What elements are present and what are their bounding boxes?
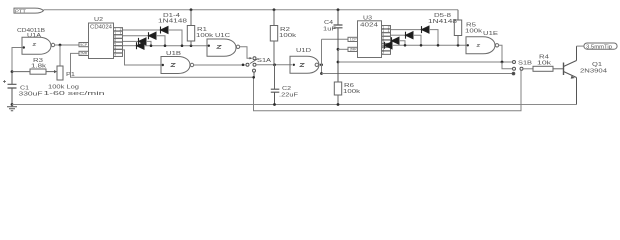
wire U3 CP connection xyxy=(322,38,349,40)
wire S1B common to R4 xyxy=(523,68,533,70)
svg-text:2: 2 xyxy=(382,51,384,55)
svg-text:1CP: 1CP xyxy=(350,38,358,42)
svg-text:1-60 sec/min: 1-60 sec/min xyxy=(44,91,105,97)
wire P1 top xyxy=(59,45,61,66)
svg-text:S1A: S1A xyxy=(257,58,272,64)
node R1 rail junction xyxy=(190,8,193,11)
diode D2 xyxy=(149,32,157,39)
gate U1A xyxy=(22,37,55,54)
node bus dot 2 xyxy=(164,44,167,47)
resistor R4 xyxy=(533,66,564,71)
IC U2 labels xyxy=(90,17,112,31)
diode D8 xyxy=(385,42,393,49)
node B junction xyxy=(337,61,340,64)
op-amp U1A label xyxy=(17,28,46,39)
svg-text:U2: U2 xyxy=(94,17,103,23)
wire U2 pin w1 xyxy=(123,29,161,31)
diodes D1-4 label xyxy=(158,13,187,25)
capacitor C1 xyxy=(3,72,17,105)
svg-text:100k: 100k xyxy=(196,33,214,39)
diode D6 xyxy=(406,32,414,39)
svg-text:U1D: U1D xyxy=(296,48,312,54)
wire U2 pin w3 xyxy=(123,40,139,42)
resistor R4 label xyxy=(537,55,552,67)
wire U3 pin w4 xyxy=(382,44,385,46)
svg-text:C4: C4 xyxy=(324,20,333,26)
wire U3 clock node vertical xyxy=(321,39,323,73)
diode D7 xyxy=(392,37,400,44)
potentiometer P1 label xyxy=(44,72,105,97)
potentiometer P1 xyxy=(57,66,63,80)
wire U2 pin w2 xyxy=(123,35,149,37)
IC U3 labels xyxy=(360,16,378,29)
wire D6 to bus xyxy=(413,35,421,45)
node bus2 dot 1 xyxy=(404,44,407,47)
node S1A MR junction xyxy=(252,76,255,79)
capacitor C2 xyxy=(271,89,280,104)
wire S1B common jog xyxy=(502,62,513,69)
wire D7 to bus xyxy=(399,41,405,46)
node ground junction C2 xyxy=(273,103,276,106)
resistor R2 label xyxy=(279,27,297,39)
wire diode bus 1 xyxy=(144,45,207,47)
resistor R5 xyxy=(454,10,461,46)
node A bottom junction xyxy=(320,72,323,75)
node U1E S1B junction xyxy=(501,61,504,64)
svg-text:100k: 100k xyxy=(465,29,483,35)
resistor R1 label xyxy=(196,27,214,39)
svg-text:U1C: U1C xyxy=(215,33,231,39)
node bus dot R1 xyxy=(190,44,193,47)
node R2 C2 junction xyxy=(273,63,276,66)
resistor R1 xyxy=(187,10,194,46)
svg-text:PTT: PTT xyxy=(15,9,26,14)
IC U3 xyxy=(348,21,391,58)
transistor Q1 label xyxy=(580,62,607,75)
svg-text:1uF: 1uF xyxy=(323,27,336,33)
node C4 rail junction xyxy=(337,8,340,11)
svg-text:2: 2 xyxy=(114,53,116,57)
svg-text:9CP: 9CP xyxy=(80,43,88,47)
svg-text:CD4024: CD4024 xyxy=(90,25,112,31)
wire U1E output xyxy=(499,45,502,62)
diode D4 xyxy=(137,42,145,49)
svg-text:100k: 100k xyxy=(343,89,361,95)
switch S1B xyxy=(513,61,524,71)
svg-text:U1E: U1E xyxy=(483,31,499,37)
node bus2 dot 2 xyxy=(420,44,423,47)
wire diode bus 2 xyxy=(392,44,466,46)
node U3 MR junction xyxy=(337,48,340,51)
svg-text:330uF: 330uF xyxy=(19,92,43,98)
svg-text:C2: C2 xyxy=(282,86,291,92)
svg-text:1N4148: 1N4148 xyxy=(428,19,457,25)
wire node B to S1B xyxy=(338,61,513,63)
wire U3 pin w2 xyxy=(391,34,406,36)
node R2 rail junction xyxy=(273,8,276,11)
gate U1C xyxy=(207,39,240,56)
capacitor C4 xyxy=(334,10,343,82)
wire PTT rail xyxy=(44,9,459,11)
capacitor C4 label xyxy=(323,20,336,33)
svg-text:2MR: 2MR xyxy=(350,48,358,52)
diode D3 xyxy=(139,38,147,45)
node U1D output junction xyxy=(320,63,323,66)
wire U2 pin w4 xyxy=(123,45,137,47)
wire D3 to bus xyxy=(146,41,151,45)
gate U1D xyxy=(290,56,319,73)
IC U2 xyxy=(79,23,123,59)
svg-text:2MR: 2MR xyxy=(80,52,88,56)
svg-text:100k: 100k xyxy=(279,33,297,39)
node P1 top junction xyxy=(59,44,62,47)
node tip flag xyxy=(584,43,617,51)
wire U1A output to U2 CP xyxy=(55,44,79,46)
resistor R2 xyxy=(270,10,277,89)
wire U3 pin w1 xyxy=(391,29,422,31)
node PTT flag xyxy=(14,8,44,14)
wire D1 to bus xyxy=(168,30,182,46)
wire U3 pin w3 xyxy=(390,40,393,42)
svg-text:100k Log: 100k Log xyxy=(48,85,79,91)
wire U2 w5 to U1B xyxy=(123,50,161,65)
svg-text:10k: 10k xyxy=(537,61,552,67)
node ground junction C1 xyxy=(11,103,14,106)
switch S1A xyxy=(246,57,258,78)
wire S1A common to U1D xyxy=(256,64,292,66)
svg-text:4024: 4024 xyxy=(360,23,378,29)
wire D2 to bus xyxy=(156,36,165,46)
gate U1B xyxy=(161,57,194,74)
resistor R5 label xyxy=(465,23,483,35)
node bus dot 3 xyxy=(181,44,184,47)
wire node A to S1B xyxy=(322,73,513,75)
diodes D5-8 label xyxy=(428,13,457,25)
wire flag to collector xyxy=(577,45,585,47)
wire U1D output xyxy=(319,64,322,66)
node S1A left dot xyxy=(242,64,245,67)
capacitor C2 label xyxy=(279,86,298,99)
resistor R3 label xyxy=(31,58,47,70)
node bus dot 1 xyxy=(150,44,153,47)
node ground junction R6 xyxy=(337,103,340,106)
ground xyxy=(7,105,17,111)
resistor R3 xyxy=(12,69,57,74)
diode D5 xyxy=(422,26,430,33)
capacitor C1 label xyxy=(19,86,43,98)
wire ground bus xyxy=(12,104,577,106)
IC U2 MR reset loop wire xyxy=(71,53,522,110)
svg-text:U1A: U1A xyxy=(27,33,42,39)
svg-text:2N3904: 2N3904 xyxy=(580,69,607,75)
svg-text:3.5mmTip: 3.5mmTip xyxy=(586,45,612,51)
transistor Q1 xyxy=(564,46,577,104)
wire U3 MR connection xyxy=(338,48,348,50)
gate U1E xyxy=(466,37,499,54)
node A S1B end xyxy=(512,72,515,75)
svg-text:1N4148: 1N4148 xyxy=(158,19,187,25)
resistor R6 label xyxy=(343,83,361,95)
wire U1B output to S1A xyxy=(194,64,246,66)
svg-text:.22uF: .22uF xyxy=(279,93,298,99)
diode D1 xyxy=(161,27,169,34)
node R3 left junction xyxy=(11,70,14,73)
node bus2 dot 3 xyxy=(437,44,440,47)
svg-text:Q1: Q1 xyxy=(592,62,602,68)
wire U1C output xyxy=(240,47,250,58)
wire U1A input xyxy=(12,48,22,72)
wire D5 to bus xyxy=(429,30,438,46)
resistor R6 xyxy=(334,82,341,105)
svg-text:S1B: S1B xyxy=(518,61,533,67)
node bus2 dot R5 xyxy=(457,44,460,47)
